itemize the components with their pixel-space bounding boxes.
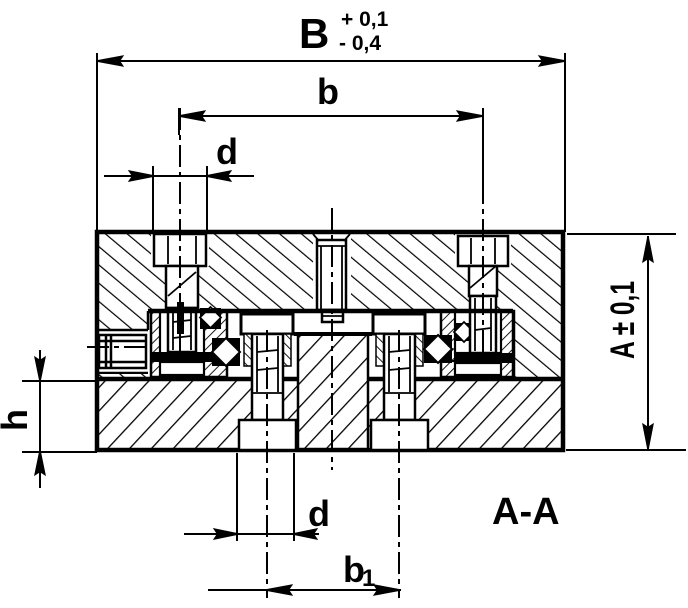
svg-text:b: b xyxy=(317,71,339,112)
recess band white xyxy=(294,313,372,332)
d bottom arrows (outside) xyxy=(215,530,237,539)
middle boss top line xyxy=(294,332,372,336)
svg-text:B: B xyxy=(299,10,329,57)
T-nut 1 xyxy=(241,314,293,334)
bushing 2 around top screw 2 xyxy=(441,311,514,377)
T-nut 2 xyxy=(373,314,425,334)
d top arrows (outside) xyxy=(130,172,153,181)
bottom screw 2 xyxy=(371,334,428,450)
top screw 2 xyxy=(458,236,508,353)
A xyxy=(647,236,649,449)
svg-text:A ± 0,1: A ± 0,1 xyxy=(604,281,642,359)
svg-text:- 0,4: - 0,4 xyxy=(339,32,381,55)
lower plate xyxy=(97,334,563,450)
upper plate xyxy=(97,232,563,378)
joint line xyxy=(97,377,563,382)
d top xyxy=(104,175,254,177)
washer diamond cluster bottom screw 2 xyxy=(424,335,452,363)
center pin xyxy=(317,240,346,322)
plate outline xyxy=(97,232,563,450)
B arrows xyxy=(98,57,122,66)
top screw 1 xyxy=(154,234,206,352)
small cone washer at bushing 1 xyxy=(200,307,221,329)
bottom screw 1 xyxy=(239,334,296,450)
A arrows xyxy=(644,238,653,261)
b1 xyxy=(208,589,401,591)
B xyxy=(97,60,565,62)
small cone washer at bushing 2 xyxy=(454,322,474,342)
svg-text:d: d xyxy=(216,131,238,172)
h arrows (outside) xyxy=(36,358,45,380)
centerlines xyxy=(87,108,483,598)
d bottom xyxy=(184,533,319,535)
svg-text:A-A: A-A xyxy=(492,491,560,533)
svg-text:d: d xyxy=(308,493,330,534)
b xyxy=(179,115,483,117)
arrows xyxy=(36,57,653,595)
clearance holes for bottom screws (white) xyxy=(251,378,284,422)
b1 arrows xyxy=(267,586,291,595)
side screw xyxy=(97,330,148,373)
svg-text:+ 0,1: + 0,1 xyxy=(341,8,389,31)
top screw counterbores (white) xyxy=(151,232,209,266)
strip below side screw cavity xyxy=(97,374,148,379)
bushing 1 around top screw 1 xyxy=(151,311,227,377)
svg-text:1: 1 xyxy=(362,565,375,592)
thread walls bottom screw 2 xyxy=(376,334,384,366)
thread walls bottom screw 1 xyxy=(244,334,252,366)
h xyxy=(39,350,41,488)
center pin hole (white) xyxy=(313,232,351,311)
middle boss of lower plate xyxy=(298,334,368,450)
svg-text:h: h xyxy=(0,409,35,431)
washer diamond cluster bottom screw 1 xyxy=(212,338,240,366)
b arrows xyxy=(180,112,204,121)
